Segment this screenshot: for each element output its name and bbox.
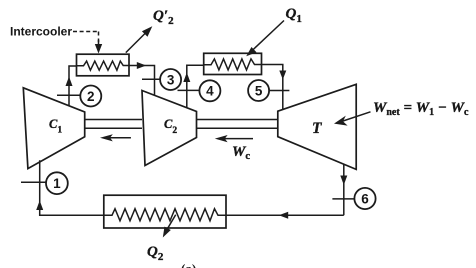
node tick 6 [332,198,354,200]
flow arrow up on wire 4 [183,73,190,83]
flow arrow left on bottom wire [279,212,288,219]
flow arrow down on wire 6 [340,176,347,186]
flow arrow up on wire 2 [66,77,73,87]
combustor / heater Q1 box [204,53,262,74]
flow arrow up on wire 1 [36,201,43,211]
svg-text:Q′2: Q′2 [153,8,174,27]
svg-text:3: 3 [167,72,175,87]
wire Q2 cooler to node 1 and C1 inlet [40,160,104,215]
svg-text:Wc: Wc [232,144,250,162]
node 2 circle [80,86,101,107]
wire intercooler to C2 inlet [129,66,155,96]
wire Q1 box to turbine inlet [262,65,283,110]
node tick 3 [142,78,160,80]
node tick 2 [57,94,81,96]
svg-text:Q2: Q2 [147,244,164,263]
svg-text:Wnet = W1 − Wc: Wnet = W1 − Wc [373,100,469,118]
leader arrow for Wnet [340,112,371,122]
cooler Q2 box [104,195,226,228]
svg-text:4: 4 [206,84,214,99]
node tick 4 [178,89,201,91]
heat-in arrow from Q1 [250,21,285,54]
compressor C2 [142,91,197,166]
node 4 circle [199,80,220,101]
leader dashed line from Intercooler label [73,31,99,33]
flow arrow right on wire 3 [137,62,146,69]
work-direction arrow on shaft 2 [224,138,253,140]
wire C2 outlet up to reheater Q1 box [187,65,204,108]
node 1 circle [46,172,68,194]
heat-out arrow to Q'2 [126,31,148,53]
compressor C1 [23,88,84,169]
cooler zigzag coil [104,209,226,221]
turbine T [278,84,356,169]
heater zigzag coil [204,59,262,70]
svg-text:Q1: Q1 [286,6,302,25]
shaft C1-C2 lower line [85,127,142,129]
wire node 6 to Q2 cooler [226,214,344,216]
node 5 circle [248,80,269,101]
node tick 1 [21,181,46,183]
shaft C2-T upper line [197,119,278,121]
heat-out arrow to Q2 [166,215,176,232]
shaft C2-T lower line [197,127,278,129]
svg-text:(a): (a) [181,261,196,268]
svg-text:1: 1 [53,176,61,191]
node 6 circle [354,188,375,209]
wire C1 outlet up to intercooler [69,66,77,108]
svg-text:2: 2 [87,89,95,104]
leader arrow into intercooler top [98,40,100,45]
svg-text:6: 6 [361,191,369,206]
node 3 circle [160,69,181,90]
shaft C1-C2 upper line [85,119,142,121]
svg-text:T: T [312,120,322,137]
flow arrow down on wire 5 [279,71,286,80]
wire turbine outlet down to node 6 [343,164,345,215]
intercooler box [77,54,130,76]
node tick 5 [268,90,290,92]
svg-text:5: 5 [255,83,263,98]
work-direction arrow on shaft 1 [109,137,131,139]
svg-text:Intercooler: Intercooler [10,25,72,39]
intercooler zigzag coil [77,61,130,70]
